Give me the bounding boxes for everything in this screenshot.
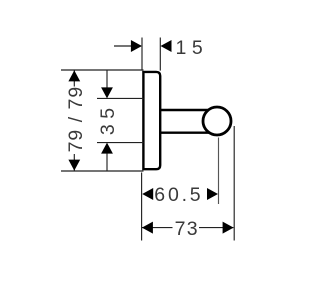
dim 35: upper arrowhead (points down) [101,87,113,98]
dim 15: left extension line [141,38,143,71]
dim 60.5: right extension line (ball centre axis) [218,138,220,205]
dim 15: right arrowhead [161,40,172,52]
svg-text:73: 73 [175,218,199,240]
ball knob [203,107,231,135]
dim 15: right extension line [159,38,161,71]
dim 73: left arrowhead [142,222,153,234]
svg-text:60.5: 60.5 [154,184,203,206]
dim 73: dimension line left segment [142,227,173,229]
dim 35: lower arrowhead (points up) [101,143,113,154]
dim 35: top extension line [97,97,144,99]
dim 60.5 / 73: shared left extension line [141,173,143,241]
wall plate (escutcheon) [143,72,160,169]
svg-text:35: 35 [97,102,119,135]
dim 73: right extension line [233,126,235,241]
hook arm bottom edge [159,131,210,133]
dim 60.5: left arrowhead [142,188,153,200]
dim 79: dimension line [73,70,75,171]
dim 79: top extension line [61,69,144,71]
dim 79: top arrowhead [68,70,80,81]
svg-text:79 / 79: 79 / 79 [65,86,87,153]
dim 60.5: right arrowhead [207,188,218,200]
dim 79: label background [66,87,83,155]
dim 35: bottom extension line [97,142,144,144]
dim 73: dimension line right segment [199,227,233,229]
dim 15: leader line [114,45,141,47]
hook arm top edge [159,109,210,111]
dim 35: upper stub line [106,71,108,90]
svg-text:15: 15 [176,37,209,59]
dim 73: right arrowhead [223,222,234,234]
dim 79: bottom extension line [61,170,144,172]
dim 35: lower stub line [106,153,108,170]
dim 79: bottom arrowhead [68,160,80,171]
dim 15: left arrowhead [131,40,142,52]
